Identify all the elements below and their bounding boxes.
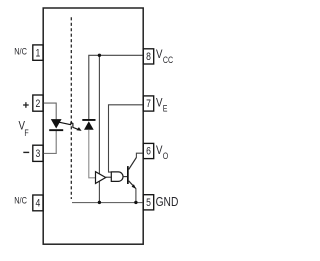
svg-text:N/C: N/C xyxy=(14,195,27,206)
svg-text:E: E xyxy=(163,104,168,114)
svg-text:7: 7 xyxy=(146,98,151,110)
pin 4 box xyxy=(33,195,43,211)
isolation barrier dashed line xyxy=(70,17,72,199)
pin 7 box xyxy=(143,96,153,111)
wire photodiode anode to amplifier xyxy=(89,130,96,178)
amplifier A1 xyxy=(96,172,106,184)
wire emitter to ground rail xyxy=(135,188,137,202)
label minus xyxy=(23,151,29,153)
svg-text:V: V xyxy=(156,144,163,157)
svg-text:4: 4 xyxy=(35,198,40,210)
pin 2 box xyxy=(33,95,43,111)
photodiode D2 xyxy=(82,119,95,121)
light arrow xyxy=(59,122,78,129)
wire enable from pin7 xyxy=(109,105,144,172)
pin 8 box xyxy=(143,49,153,64)
gate G1 xyxy=(111,172,123,182)
svg-text:GND: GND xyxy=(156,196,179,209)
wire pin2 to LED anode xyxy=(43,103,56,119)
transistor Q1 xyxy=(127,166,129,184)
svg-text:3: 3 xyxy=(35,148,40,160)
wire collector to pin6 xyxy=(136,153,143,157)
pin 3 box xyxy=(33,145,43,161)
svg-text:V: V xyxy=(156,48,163,61)
svg-text:5: 5 xyxy=(146,197,151,209)
svg-text:1: 1 xyxy=(35,47,40,59)
wire LED cathode to pin3 xyxy=(43,131,56,154)
wire Vcc rail from pin8 xyxy=(89,55,143,119)
ground rail to pin5 xyxy=(72,202,143,204)
svg-text:F: F xyxy=(24,128,28,138)
pin 6 box xyxy=(143,143,153,158)
junction Vcc/amp supply xyxy=(98,54,101,57)
IC body U1 xyxy=(43,8,143,244)
svg-text:N/C: N/C xyxy=(14,46,27,57)
svg-text:6: 6 xyxy=(146,146,151,158)
svg-text:8: 8 xyxy=(146,51,151,63)
junction emitter/ground xyxy=(134,201,137,204)
svg-text:O: O xyxy=(163,151,168,161)
wire amplifier output xyxy=(106,176,112,178)
wire amplifier supply xyxy=(98,55,100,202)
pin 1 box xyxy=(33,45,43,60)
svg-text:CC: CC xyxy=(163,55,173,65)
pin 5 box xyxy=(143,195,153,210)
wire gate output to base xyxy=(123,176,127,178)
LED D1 xyxy=(51,119,62,128)
svg-text:2: 2 xyxy=(35,98,40,110)
label + xyxy=(23,102,29,108)
svg-text:V: V xyxy=(156,97,163,110)
junction amp supply/ground xyxy=(98,201,101,204)
